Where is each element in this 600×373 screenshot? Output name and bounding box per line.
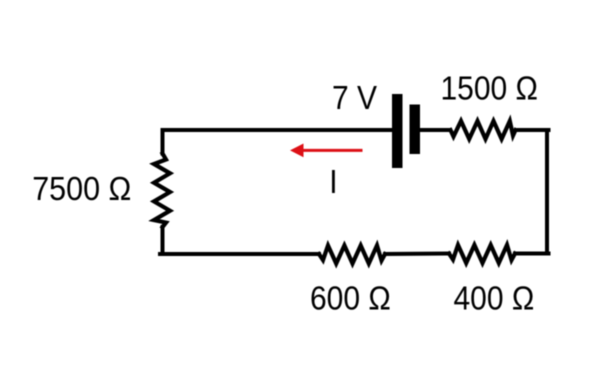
wire top: left corner to battery — [163, 128, 393, 132]
wire bottom: resistor 400 to resistor 600 — [385, 252, 449, 257]
svg-text:400 Ω: 400 Ω — [454, 279, 535, 317]
wire bottom: right corner to resistor 400 — [515, 252, 549, 256]
wire bottom: resistor 600 to bottom-left corner — [160, 252, 319, 256]
current arrow (red) — [290, 144, 363, 158]
svg-text:600 Ω: 600 Ω — [310, 279, 391, 317]
wire top: resistor 1500 to top-right corner — [517, 128, 549, 132]
svg-text:1500 Ω: 1500 Ω — [441, 69, 538, 107]
resistor 7500 ohm zigzag (vertical) — [154, 154, 170, 228]
battery plate short (right) — [410, 105, 421, 155]
resistor 1500 ohm zigzag — [451, 121, 516, 139]
resistor 600 ohm zigzag — [319, 246, 385, 264]
wire left vertical lower — [161, 227, 165, 254]
battery plate long (left) — [392, 94, 403, 168]
svg-text:I: I — [329, 163, 337, 201]
resistor 400 ohm zigzag — [449, 245, 515, 263]
svg-text:7 V: 7 V — [332, 79, 377, 117]
svg-text:7500 Ω: 7500 Ω — [32, 170, 131, 208]
wire top: battery to resistor 1500 — [420, 128, 449, 132]
wire right vertical — [545, 130, 549, 254]
wire left vertical upper — [161, 130, 165, 154]
